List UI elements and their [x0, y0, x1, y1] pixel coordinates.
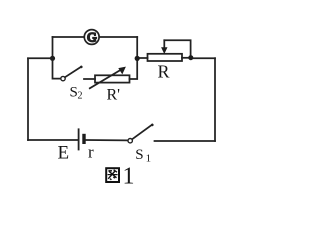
- wire R' to node B riser: [130, 58, 138, 79]
- svg-text:R': R': [107, 87, 121, 104]
- label figure 图1: [106, 163, 134, 189]
- rheostat R': [90, 67, 130, 89]
- wire node B to R: [137, 57, 147, 59]
- node C dot: [188, 55, 193, 60]
- wire G-loop right riser: [136, 37, 138, 58]
- svg-text:G: G: [87, 30, 96, 45]
- label S1: [135, 147, 151, 165]
- switch S1: [128, 124, 154, 143]
- svg-text:1: 1: [123, 163, 135, 189]
- wire bottom left (to battery): [28, 139, 78, 141]
- wire G-loop top right: [99, 36, 137, 38]
- resistor R: [148, 54, 183, 61]
- wire G-loop left riser: [52, 37, 54, 58]
- wire left vertical: [27, 58, 29, 140]
- svg-text:r: r: [88, 143, 94, 162]
- svg-text:1: 1: [146, 153, 152, 165]
- switch S2: [61, 66, 83, 81]
- svg-text:S: S: [135, 147, 143, 163]
- node A dot: [50, 56, 55, 61]
- svg-text:E: E: [58, 143, 70, 164]
- wire node A down to S2: [53, 58, 61, 78]
- svg-text:R: R: [158, 62, 170, 82]
- wire G-loop top left: [53, 36, 85, 38]
- label S2: [70, 85, 83, 102]
- wire S2 fixed contact to R': [84, 78, 95, 80]
- wire battery to S1: [86, 139, 128, 141]
- wire S1 fixed contact to right corner: [155, 140, 216, 142]
- node B dot: [135, 56, 140, 61]
- wire node A to left wire: [28, 57, 53, 59]
- galvanometer G: [84, 30, 99, 45]
- wire node C to right corner: [191, 57, 215, 59]
- wire right vertical: [214, 58, 216, 141]
- slider arrow on R: [161, 40, 167, 54]
- slider loop wire: [164, 40, 190, 56]
- svg-text:2: 2: [78, 91, 83, 102]
- wire R to node C: [182, 57, 189, 59]
- battery E r: [79, 129, 86, 149]
